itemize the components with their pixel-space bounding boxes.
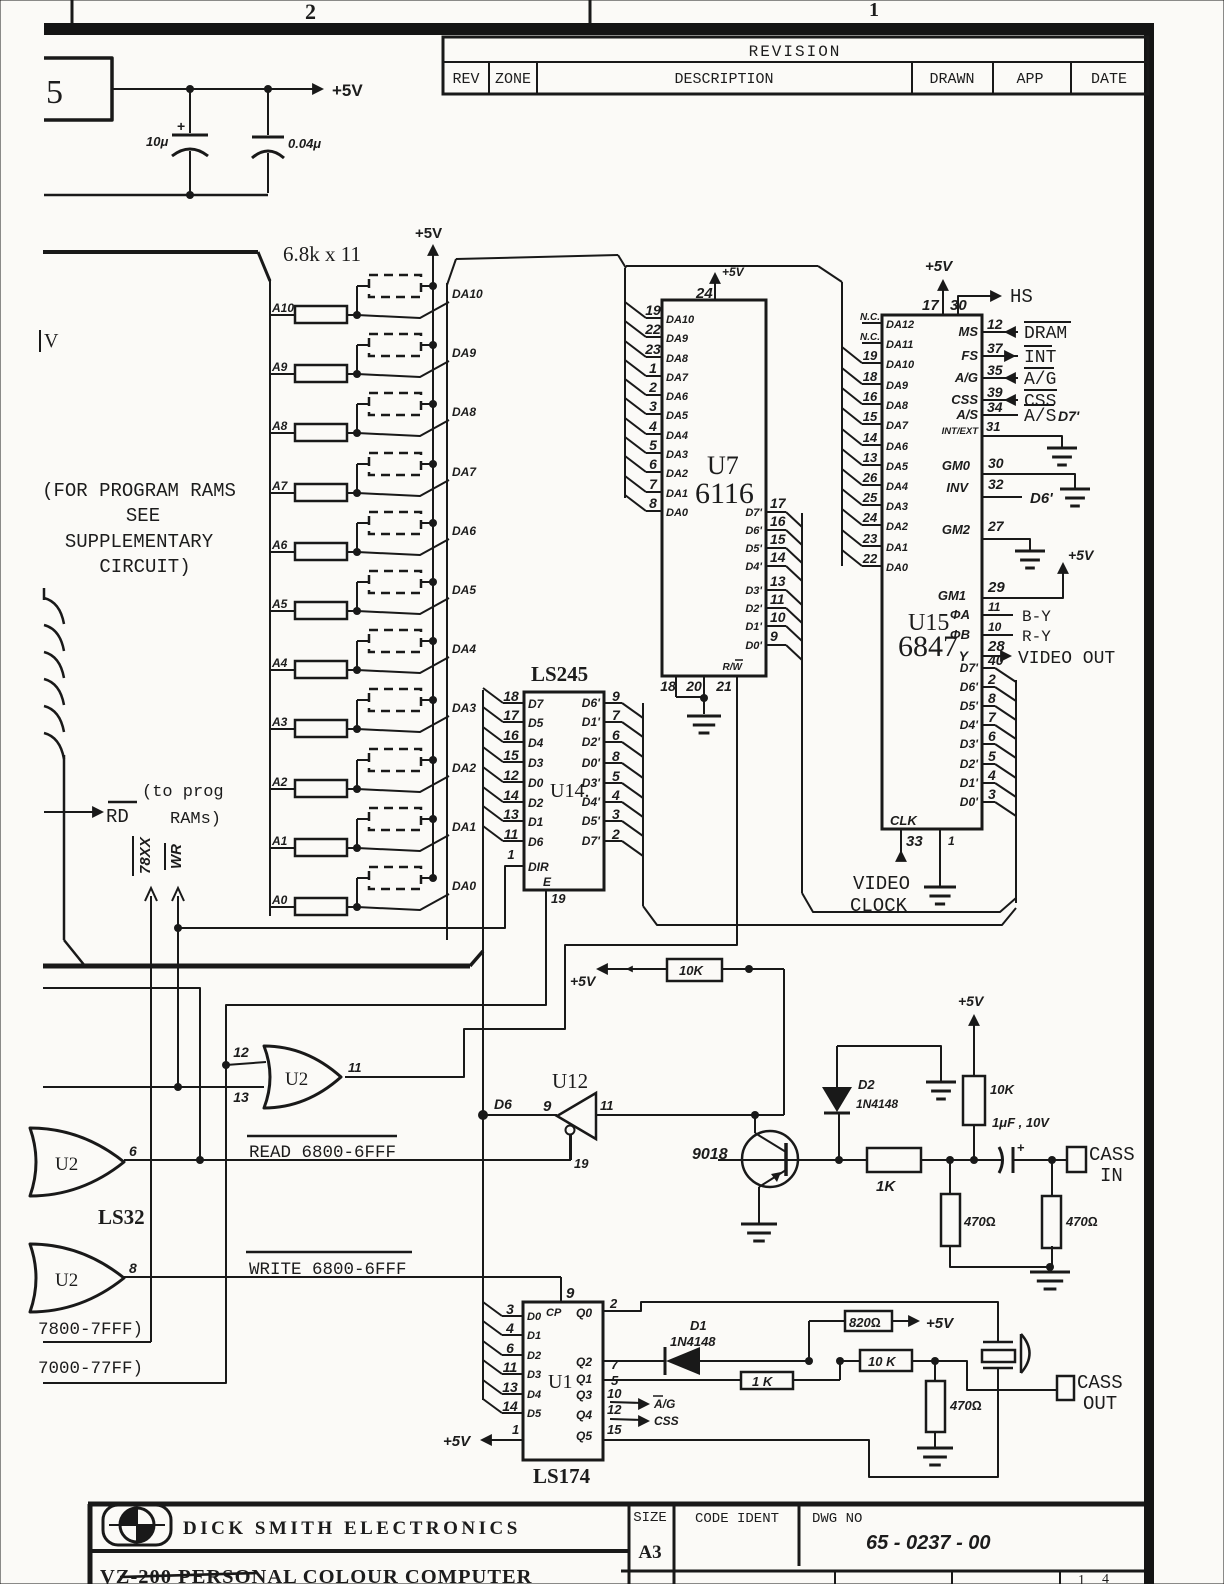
resistor 820 ohm to +5V — [808, 1321, 810, 1361]
svg-text:CASS: CASS — [1089, 1144, 1135, 1166]
svg-text:DA12: DA12 — [886, 319, 914, 331]
ladder right rail DA bus — [446, 283, 448, 940]
U14/U1 left data bus rail — [482, 690, 484, 1400]
svg-text:17: 17 — [770, 495, 787, 511]
svg-text:V: V — [44, 330, 59, 352]
svg-text:470Ω: 470Ω — [963, 1214, 996, 1229]
svg-text:8: 8 — [988, 690, 996, 706]
U14 pin 5 (D3') — [604, 782, 622, 784]
svg-text:5: 5 — [988, 748, 996, 764]
U7 pin 13 (D3') — [766, 589, 786, 591]
svg-text:CLK: CLK — [890, 813, 918, 828]
svg-text:24: 24 — [862, 510, 878, 525]
U14 pin 7 (D1') — [604, 721, 622, 723]
U7 pin 7 (DA1) — [625, 476, 646, 492]
svg-text:D3': D3' — [960, 737, 979, 751]
ground return wire — [44, 194, 268, 197]
svg-text:D5: D5 — [528, 716, 544, 730]
node D6 — [478, 1110, 488, 1120]
junction — [186, 85, 194, 93]
U14 pin 12 (D0) — [483, 767, 503, 782]
svg-text:D0': D0' — [745, 640, 762, 652]
svg-text:11: 11 — [503, 1359, 518, 1375]
svg-text:12: 12 — [987, 316, 1003, 332]
svg-text:A/G: A/G — [1024, 370, 1056, 390]
svg-text:1: 1 — [948, 834, 955, 848]
U15 pin 24 (DA2) — [842, 509, 862, 525]
svg-text:D0: D0 — [527, 1311, 542, 1323]
U15 pin 30 HS — [958, 296, 994, 315]
zone tick left — [71, 0, 74, 23]
svg-text:+5V: +5V — [926, 1315, 955, 1332]
svg-text:D1': D1' — [745, 621, 762, 633]
svg-text:+5V: +5V — [1068, 547, 1095, 563]
svg-text:13: 13 — [502, 1379, 518, 1395]
svg-text:17: 17 — [922, 297, 939, 314]
svg-text:27: 27 — [987, 518, 1005, 534]
pullup resistor (dashed) row A7 — [356, 464, 358, 493]
strike line through title — [120, 1573, 258, 1577]
svg-text:U2: U2 — [55, 1270, 78, 1291]
svg-text:8: 8 — [612, 748, 620, 764]
svg-text:D7': D7' — [745, 507, 762, 519]
wire node DA1 — [357, 835, 449, 851]
svg-text:DA5: DA5 — [666, 410, 689, 422]
svg-text:4: 4 — [648, 418, 657, 434]
+5V rail for pullups — [432, 250, 434, 878]
wire to gate 13 input — [43, 1086, 264, 1088]
svg-text:9: 9 — [770, 628, 778, 644]
ground — [1047, 447, 1077, 450]
ground — [1015, 550, 1045, 553]
svg-text:LS245: LS245 — [531, 662, 588, 686]
svg-text:CLOCK: CLOCK — [850, 895, 908, 917]
svg-text:A4: A4 — [271, 656, 288, 670]
pullup resistor (dashed) row A8 — [356, 404, 358, 433]
U7 pin 15 (D5') — [766, 547, 786, 549]
svg-text:DA1: DA1 — [666, 488, 688, 500]
svg-text:9: 9 — [612, 688, 620, 704]
U15 pin 12 (MS) -> DRAM — [982, 331, 1018, 333]
svg-text:7000-77FF): 7000-77FF) — [38, 1359, 143, 1379]
svg-text:Q3: Q3 — [576, 1388, 592, 1402]
U15 pin 3 (D0') — [982, 801, 995, 803]
or-gate U2 (pin 8) WRITE source — [30, 1244, 124, 1312]
svg-text:10: 10 — [988, 620, 1002, 634]
resistor 1K base — [786, 1159, 867, 1161]
svg-text:D1: D1 — [528, 815, 544, 829]
svg-text:5: 5 — [612, 768, 620, 784]
svg-text:D1': D1' — [582, 715, 601, 729]
U1 pin 4 (D1) — [483, 1321, 502, 1335]
U7 pin 19 (DA10) — [625, 302, 646, 318]
svg-text:D4': D4' — [960, 718, 979, 732]
connector CASS IN — [1052, 1159, 1067, 1161]
U7 pin 4 (DA4) — [625, 418, 646, 434]
svg-text:18: 18 — [660, 678, 676, 694]
svg-text:470Ω: 470Ω — [949, 1398, 982, 1413]
svg-text:15: 15 — [863, 409, 878, 424]
U14 pin 8 (D0') — [604, 762, 622, 764]
svg-text:3: 3 — [506, 1301, 514, 1317]
svg-text:14: 14 — [502, 1398, 518, 1414]
svg-text:A3: A3 — [638, 1542, 661, 1563]
resistor 10K to +5V — [973, 1125, 975, 1160]
svg-text:DA4: DA4 — [666, 430, 688, 442]
svg-text:30: 30 — [988, 455, 1004, 471]
svg-text:D3: D3 — [527, 1369, 541, 1381]
svg-text:SUPPLEMENTARY: SUPPLEMENTARY — [65, 531, 214, 553]
svg-text:33: 33 — [906, 833, 923, 850]
svg-text:R-Y: R-Y — [1022, 628, 1051, 646]
svg-text:DA9: DA9 — [666, 333, 689, 345]
svg-text:19: 19 — [551, 891, 566, 906]
svg-text:5: 5 — [46, 74, 63, 111]
U7 pin 6 (DA2) — [625, 456, 646, 472]
U15 pin N.C. (DA11) — [862, 342, 882, 344]
svg-text:ΦA: ΦA — [950, 607, 970, 622]
U7 pin 8 (DA0) — [625, 495, 646, 511]
U15 pin 23 (DA1) — [842, 530, 862, 546]
svg-text:INT/EXT: INT/EXT — [942, 426, 980, 437]
svg-text:6: 6 — [506, 1340, 514, 1356]
resistor A7 6.8k — [270, 492, 295, 494]
pullup resistor (dashed) row A4 — [356, 641, 358, 670]
svg-text:DA7: DA7 — [886, 420, 909, 432]
svg-text:Q0: Q0 — [576, 1306, 592, 1320]
data bus wire U14 to U15 — [643, 906, 1016, 925]
svg-text:ΦB: ΦB — [950, 627, 970, 642]
capacitor 10u — [189, 89, 191, 133]
svg-text:D5': D5' — [582, 814, 601, 828]
svg-text:+5V: +5V — [415, 225, 442, 242]
pullup resistor (dashed) row A2 — [356, 760, 358, 789]
svg-text:2: 2 — [987, 671, 996, 687]
svg-text:1μF , 10V: 1μF , 10V — [992, 1115, 1050, 1130]
U15 pin 14 (DA6) — [842, 429, 862, 445]
svg-text:E: E — [543, 875, 552, 889]
capacitor 1uF 10V — [999, 1147, 1003, 1173]
svg-text:SIZE: SIZE — [633, 1510, 667, 1526]
svg-text:APP: APP — [1016, 71, 1043, 88]
svg-text:D4: D4 — [527, 1389, 541, 1401]
U7 pin 18 — [675, 676, 677, 697]
svg-text:A/G: A/G — [653, 1397, 675, 1411]
svg-text:CODE IDENT: CODE IDENT — [695, 1511, 779, 1527]
U15 pin 22 (DA0) — [842, 550, 862, 566]
svg-text:D2: D2 — [527, 1350, 541, 1362]
svg-text:DESCRIPTION: DESCRIPTION — [674, 71, 773, 88]
svg-text:DWG NO: DWG NO — [812, 1511, 862, 1527]
svg-text:DRAWN: DRAWN — [929, 71, 974, 88]
wire to CASS OUT — [935, 1361, 1057, 1390]
svg-text:19: 19 — [863, 348, 878, 363]
svg-text:DA6: DA6 — [666, 391, 689, 403]
U15 address tap rail — [626, 265, 818, 267]
svg-text:CP: CP — [546, 1307, 562, 1319]
svg-text:15: 15 — [503, 747, 519, 763]
U15 pin 8 (D5') — [982, 705, 995, 707]
svg-text:A10: A10 — [271, 301, 294, 315]
vdg U15 6847 — [882, 315, 982, 829]
svg-text:N.C.: N.C. — [860, 312, 880, 323]
svg-text:1N4148: 1N4148 — [856, 1097, 898, 1111]
svg-text:14: 14 — [770, 549, 786, 565]
svg-text:D6: D6 — [494, 1096, 512, 1112]
svg-text:D4': D4' — [745, 561, 762, 573]
svg-text:+5V: +5V — [958, 993, 985, 1009]
svg-text:23: 23 — [644, 341, 661, 357]
diode D1 1N4148 — [664, 1347, 667, 1375]
U15 pin 26 (DA4) — [842, 469, 862, 485]
U7 pin 22 (DA9) — [625, 321, 646, 337]
U15 pin 37 (FS) -> INT — [982, 355, 1018, 357]
resistor A4 6.8k — [270, 669, 295, 671]
svg-text:D3: D3 — [528, 756, 544, 770]
U1 pin 6 (D2) — [483, 1341, 502, 1355]
U14 pin 13 (D1) — [483, 806, 503, 821]
U1 pin 14 (D5) — [483, 1399, 502, 1413]
svg-text:31: 31 — [986, 419, 1000, 434]
svg-text:4: 4 — [987, 767, 996, 783]
U1 pin 3 (D0) — [483, 1302, 502, 1316]
svg-text:10μ: 10μ — [146, 134, 168, 149]
svg-text:A1: A1 — [271, 834, 288, 848]
svg-text:15: 15 — [607, 1422, 622, 1437]
svg-text:6: 6 — [649, 456, 657, 472]
bus rail to main bus — [63, 755, 66, 940]
pullup resistor (dashed) row A1 — [356, 819, 358, 848]
svg-text:5: 5 — [649, 437, 657, 453]
svg-text:1: 1 — [869, 0, 879, 21]
svg-text:6: 6 — [612, 727, 620, 743]
U14 pin 15 (D3) — [483, 747, 503, 762]
svg-text:D2': D2' — [745, 603, 762, 615]
svg-text:30: 30 — [950, 297, 967, 314]
WR signal arrow — [172, 888, 184, 901]
svg-text:DA0: DA0 — [886, 562, 909, 574]
svg-text:A9: A9 — [271, 360, 288, 374]
svg-text:D6': D6' — [1030, 490, 1053, 507]
svg-text:DA1: DA1 — [886, 542, 908, 554]
svg-text:DA7: DA7 — [666, 372, 689, 384]
svg-text:D5: D5 — [527, 1408, 542, 1420]
bus transceiver U14 LS245 — [524, 692, 604, 890]
svg-text:4: 4 — [611, 787, 620, 803]
U15 pin 40 (D7') — [982, 667, 995, 669]
wire node DA6 — [357, 539, 449, 555]
svg-text:D7': D7' — [582, 834, 601, 848]
svg-text:D6': D6' — [745, 525, 762, 537]
svg-text:3: 3 — [649, 398, 657, 414]
ground — [924, 886, 956, 889]
svg-text:A8: A8 — [271, 419, 288, 433]
svg-text:6116: 6116 — [695, 477, 754, 510]
svg-text:D1: D1 — [690, 1318, 707, 1333]
U15 pin 6 (D3') — [982, 743, 995, 745]
svg-text:DA8: DA8 — [886, 400, 909, 412]
svg-text:CASS: CASS — [1077, 1372, 1123, 1394]
svg-text:+5V: +5V — [925, 258, 954, 275]
svg-text:13: 13 — [503, 806, 519, 822]
svg-text:11: 11 — [988, 600, 1001, 614]
svg-text:7: 7 — [611, 1357, 619, 1372]
svg-text:17: 17 — [503, 707, 520, 723]
svg-text:29: 29 — [987, 579, 1005, 596]
svg-text:INV: INV — [946, 480, 969, 495]
svg-text:DA8: DA8 — [666, 353, 689, 365]
svg-text:A/S: A/S — [1024, 407, 1056, 427]
wire node DA4 — [357, 657, 449, 673]
U15 pin 25 (DA3) — [842, 489, 862, 505]
U1 pin 13 (D4) — [483, 1380, 502, 1394]
svg-text:11: 11 — [504, 826, 519, 842]
pullup resistor (dashed) row A6 — [356, 523, 358, 552]
svg-text:1: 1 — [649, 360, 657, 376]
svg-text:U12: U12 — [552, 1069, 588, 1093]
svg-text:REVISION: REVISION — [749, 43, 842, 61]
svg-text:1: 1 — [1078, 1573, 1085, 1584]
bus feed line to U7/U15 — [456, 255, 618, 259]
U1 pin 1 +5V — [486, 1439, 523, 1441]
wire to READ line — [43, 988, 200, 1160]
svg-text:RD: RD — [106, 806, 129, 828]
U7 pin 24 +5V — [714, 278, 716, 300]
svg-text:FS: FS — [961, 348, 978, 363]
svg-text:A7: A7 — [271, 479, 289, 493]
svg-text:D1': D1' — [960, 776, 979, 790]
svg-text:DA5: DA5 — [886, 461, 909, 473]
svg-text:VIDEO OUT: VIDEO OUT — [1018, 649, 1115, 669]
svg-text:65 - 0237 - 00: 65 - 0237 - 00 — [866, 1532, 991, 1554]
regulator box 5 — [44, 58, 112, 120]
svg-text:DA3: DA3 — [886, 501, 908, 513]
svg-text:14: 14 — [503, 787, 519, 803]
svg-text:25: 25 — [862, 490, 878, 505]
svg-text:+: + — [177, 118, 185, 134]
resistor A5 6.8k — [270, 610, 295, 612]
svg-text:DA9: DA9 — [886, 380, 909, 392]
page right border bar — [1144, 23, 1154, 1584]
title block frame — [88, 1502, 1144, 1507]
wire node DA0 — [357, 894, 449, 910]
resistor A1 6.8k — [270, 847, 295, 849]
READ 6800-6FFF net — [124, 1159, 571, 1161]
svg-text:Q4: Q4 — [576, 1408, 592, 1422]
latch U1 LS174 — [523, 1302, 603, 1460]
svg-text:GM0: GM0 — [942, 458, 971, 473]
svg-text:19: 19 — [574, 1156, 589, 1171]
svg-text:1: 1 — [512, 1422, 519, 1437]
wire node DA9 — [357, 361, 449, 377]
U7 pin 16 (D6') — [766, 529, 786, 531]
svg-text:DA7: DA7 — [452, 465, 477, 479]
svg-text:1 K: 1 K — [752, 1374, 774, 1389]
svg-text:INT: INT — [1024, 348, 1057, 368]
svg-text:0.04μ: 0.04μ — [288, 136, 321, 151]
svg-text:LS174: LS174 — [533, 1464, 591, 1488]
svg-text:12: 12 — [607, 1402, 622, 1417]
svg-text:GM1: GM1 — [938, 588, 966, 603]
ground — [1030, 1271, 1070, 1274]
U14 pin 18 (D7) — [483, 688, 503, 703]
resistor A6 6.8k — [270, 551, 295, 553]
data bus wire U7 to U15 — [802, 893, 1016, 912]
connector CASS OUT — [1057, 1376, 1074, 1400]
U14 pin 4 (D4') — [604, 801, 622, 803]
ground — [926, 1081, 956, 1084]
svg-text:8: 8 — [129, 1260, 137, 1276]
svg-text:D1: D1 — [527, 1330, 541, 1342]
U14 pin 6 (D2') — [604, 741, 622, 743]
svg-text:6: 6 — [988, 728, 996, 744]
address bus thick feed — [43, 250, 258, 254]
U1 pin 9 CP from WRITE — [560, 1277, 562, 1302]
resistor 470 ohm right — [1051, 1160, 1053, 1196]
svg-text:U1: U1 — [548, 1371, 572, 1393]
svg-text:DA5: DA5 — [452, 583, 476, 597]
svg-text:B-Y: B-Y — [1022, 608, 1051, 626]
U7 pin 3 (DA5) — [625, 398, 646, 414]
piezo transducer — [983, 1341, 1013, 1344]
svg-text:+: + — [1017, 1140, 1025, 1155]
resistor 470 ohm — [934, 1361, 936, 1381]
wire node DA10 — [357, 302, 449, 318]
svg-text:7800-7FFF): 7800-7FFF) — [38, 1320, 143, 1340]
U7 pin 17 (D7') — [766, 511, 786, 513]
svg-text:15: 15 — [770, 531, 786, 547]
RD arrow to prog RAMs — [44, 811, 96, 813]
svg-text:DA6: DA6 — [886, 441, 909, 453]
svg-text:D4: D4 — [528, 736, 544, 750]
svg-text:+5V: +5V — [443, 1433, 472, 1450]
svg-text:CSS: CSS — [951, 392, 978, 407]
svg-text:13: 13 — [770, 573, 786, 589]
U7 pin 23 (DA8) — [625, 341, 646, 357]
svg-text:ZONE: ZONE — [495, 71, 531, 88]
svg-text:11: 11 — [770, 591, 785, 607]
wire node DA5 — [357, 598, 449, 614]
pullup resistor (dashed) row A10 — [356, 286, 358, 315]
svg-text:35: 35 — [987, 362, 1003, 378]
U14 pin 14 (D2) — [483, 787, 503, 802]
svg-text:VIDEO: VIDEO — [853, 873, 910, 895]
svg-text:MS: MS — [959, 324, 979, 339]
U15 pin 2 (D6') — [982, 686, 995, 688]
svg-text:4: 4 — [505, 1320, 514, 1336]
svg-text:A0: A0 — [271, 893, 288, 907]
78XX signal arrow — [145, 888, 157, 901]
svg-text:2: 2 — [611, 826, 620, 842]
svg-text:D3': D3' — [745, 585, 762, 597]
address bus merge hooks — [44, 598, 64, 624]
svg-text:A/S: A/S — [955, 407, 978, 422]
U15 pin 19 (DA10) — [842, 347, 862, 363]
svg-text:470Ω: 470Ω — [1065, 1214, 1098, 1229]
svg-text:Q5: Q5 — [576, 1429, 592, 1443]
svg-text:RAMs): RAMs) — [170, 810, 221, 829]
resistor A10 6.8k — [270, 314, 295, 316]
U15 pin 18 (DA9) — [842, 368, 862, 384]
U15 pin 34 (A/S) -> A/S — [982, 414, 1018, 416]
svg-text:DA4: DA4 — [886, 481, 908, 493]
U15 pin 5 (D2') — [982, 763, 995, 765]
svg-text:D7: D7 — [528, 697, 545, 711]
U15 pin 1 ground — [939, 829, 941, 887]
svg-text:D2': D2' — [582, 735, 601, 749]
ground — [1060, 488, 1090, 491]
svg-text:CSS: CSS — [654, 1414, 679, 1428]
